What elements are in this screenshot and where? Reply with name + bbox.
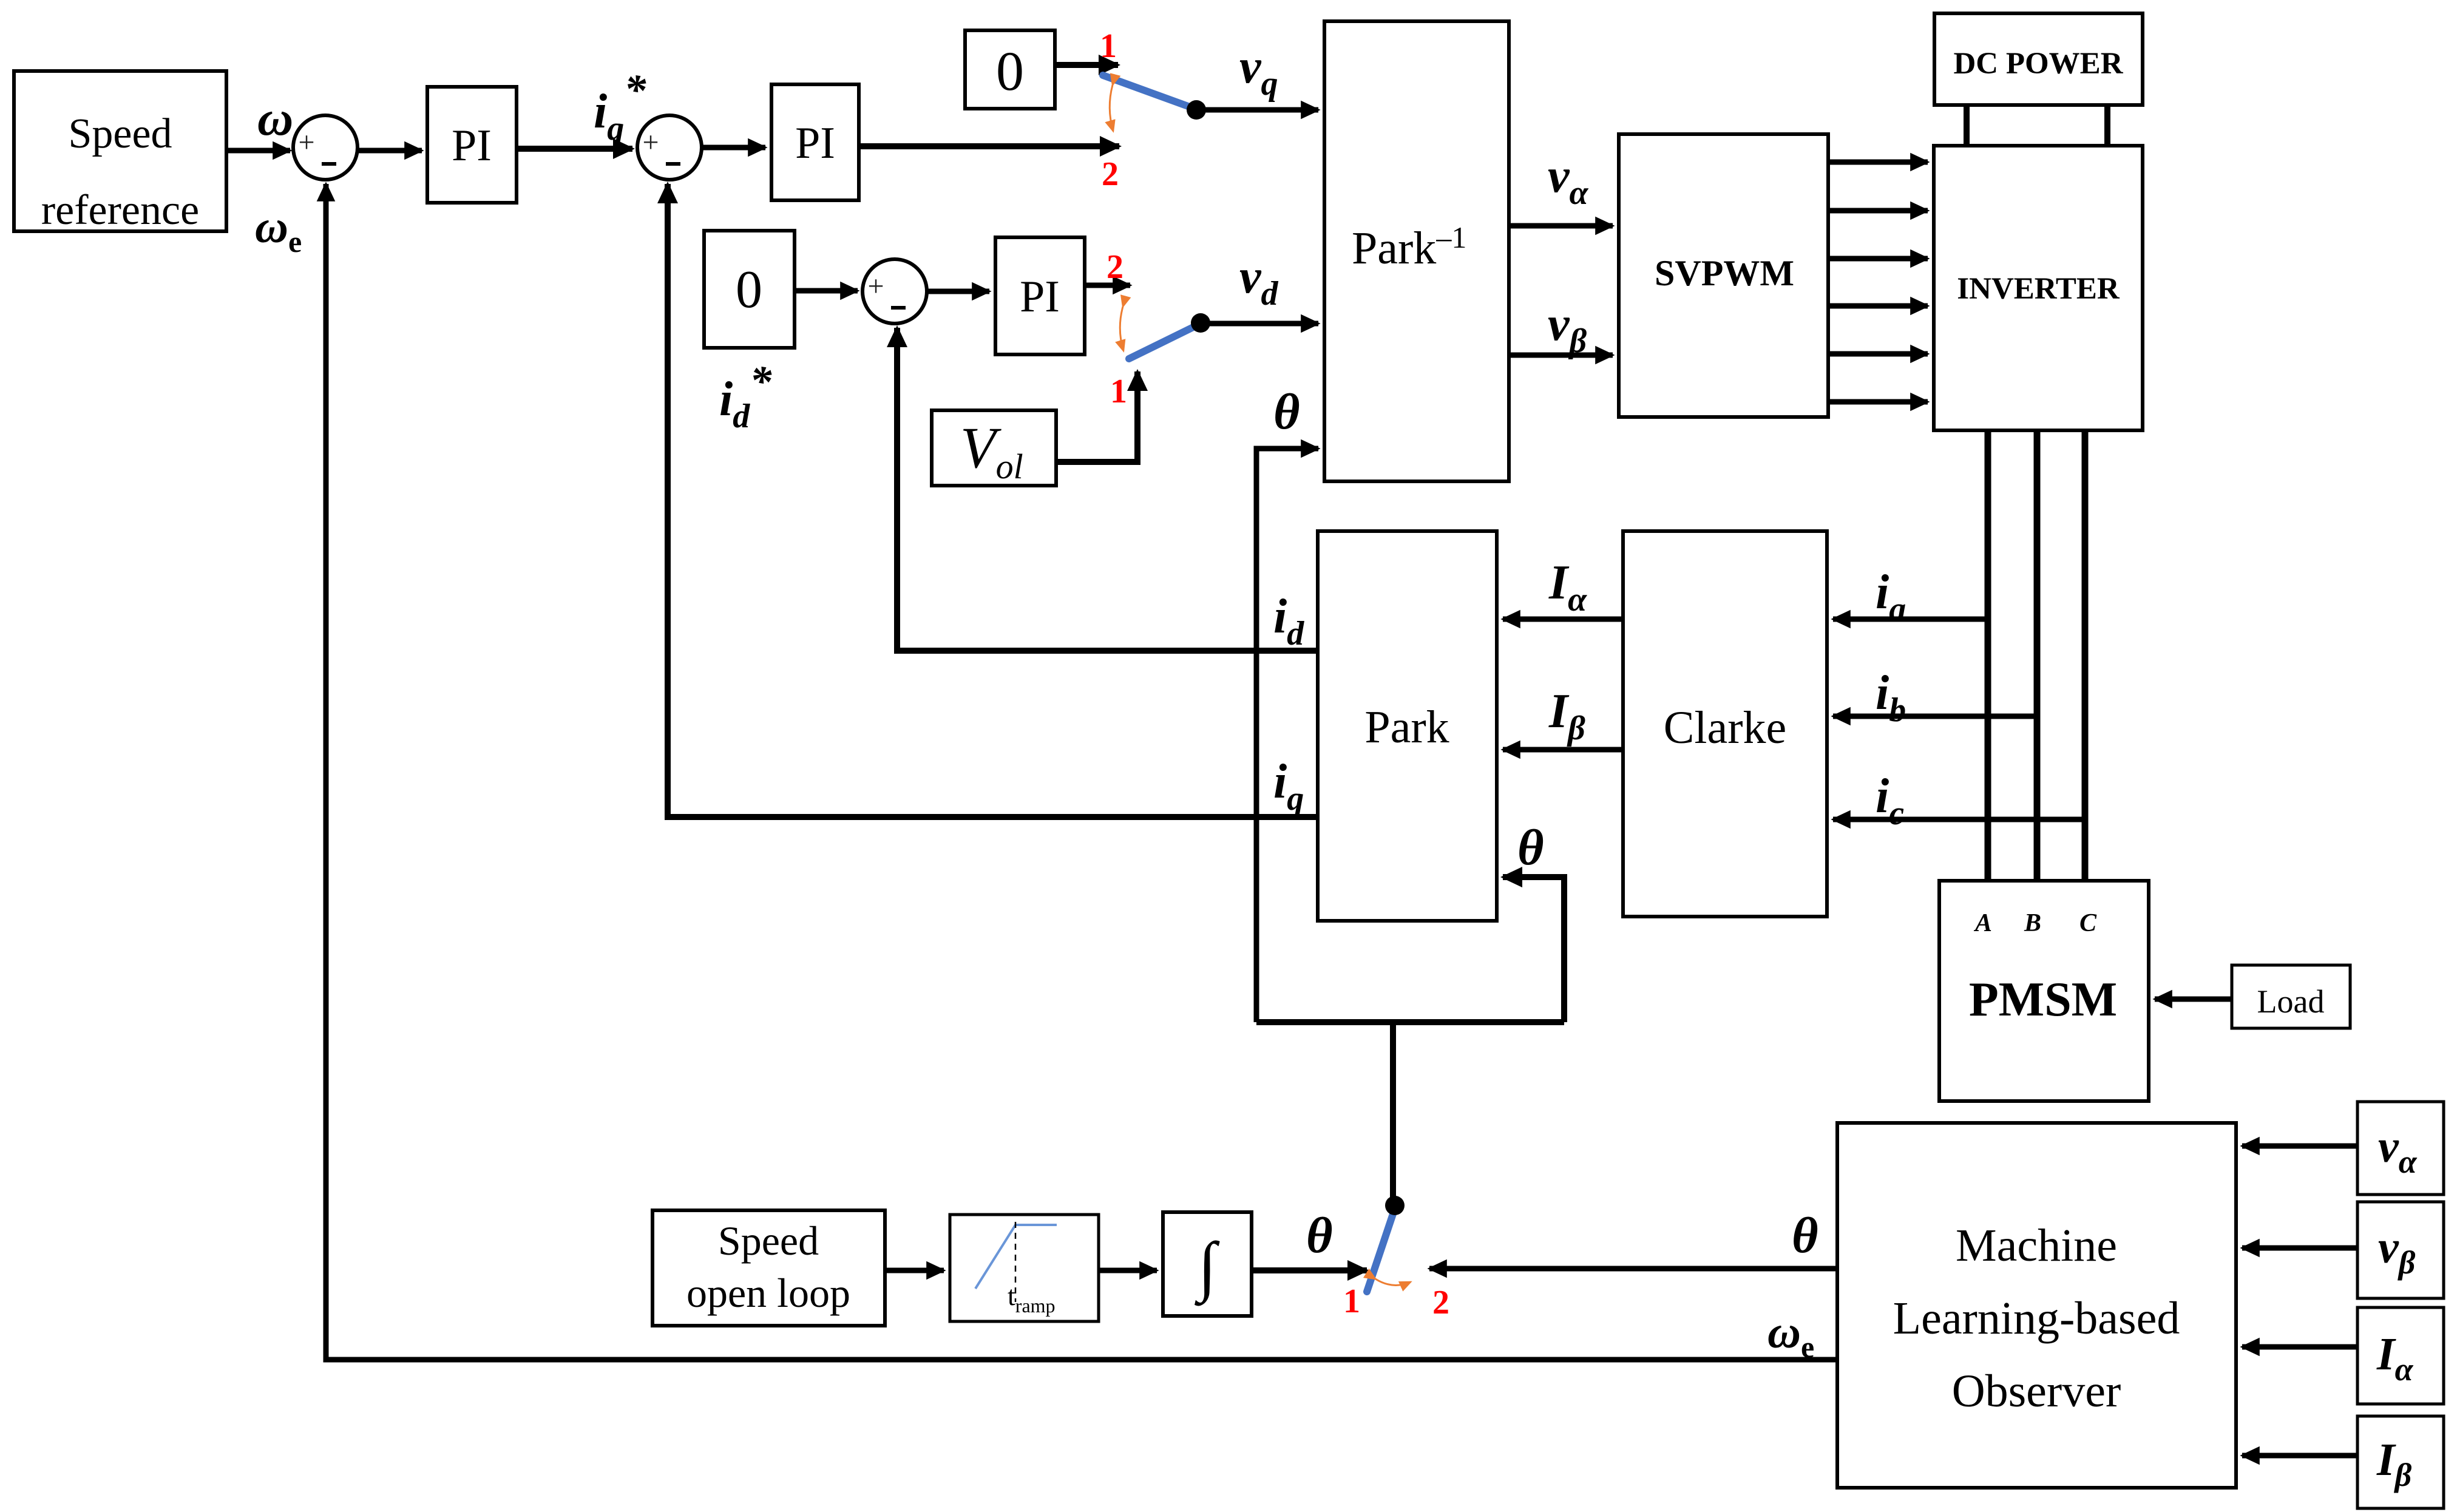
wire speed open loop to ramp	[885, 1268, 944, 1273]
block v-alpha input	[2357, 1102, 2444, 1195]
svg-text:A: A	[1973, 909, 1992, 937]
svg-text:reference: reference	[41, 187, 199, 234]
wire phase A INVERTER to PMSM	[1985, 430, 1991, 881]
block DC POWER	[1934, 13, 2143, 105]
block inverse Park transform	[1324, 21, 1509, 481]
wire omega-e feedback to speed summing junction	[326, 184, 1837, 1360]
svg-text:open loop: open loop	[686, 1270, 850, 1316]
wire ib tap to Clarke	[1833, 714, 2037, 719]
svg-text:SVPWM: SVPWM	[1655, 253, 1794, 293]
block Machine Learning-based Observer	[1837, 1123, 2236, 1488]
wire SVPWM to INVERTER pwm 1	[1828, 160, 1928, 165]
svg-text:PI: PI	[1020, 272, 1060, 322]
wire theta bus down to switch pole	[1390, 1022, 1396, 1199]
wire PI q to switch contact 2	[859, 143, 1119, 149]
svg-text:2: 2	[1432, 1284, 1449, 1321]
block PI speed controller	[427, 87, 517, 203]
svg-text:PMSM: PMSM	[1969, 973, 2117, 1026]
wire vd switch pole to inverse Park	[1199, 321, 1318, 327]
svg-text:2: 2	[1106, 248, 1123, 286]
wire SVPWM to INVERTER pwm 4	[1828, 303, 1928, 309]
switch theta lever	[1367, 1207, 1395, 1292]
wire Clarke I-beta to Park	[1503, 747, 1623, 753]
wire ramp to integrator	[1099, 1268, 1157, 1273]
wire vq switch pole to inverse Park	[1196, 107, 1318, 113]
wire PI d to vd switch contact 2	[1085, 283, 1130, 288]
wire Vol to vd switch contact 1	[1056, 371, 1137, 462]
summing junction speed	[293, 115, 358, 180]
wire inverse Park v-alpha to SVPWM	[1509, 223, 1613, 229]
wire integrator theta to switch contact 1	[1252, 1267, 1367, 1273]
svg-text:1: 1	[1110, 373, 1127, 410]
wire I-alpha box to observer	[2242, 1344, 2357, 1350]
wire v-beta box to observer	[2242, 1246, 2357, 1251]
block PMSM	[1939, 881, 2149, 1101]
wire Load to PMSM	[2155, 997, 2232, 1002]
block ramp limiter t_ramp	[950, 1215, 1099, 1321]
block PI d-axis current controller	[995, 237, 1085, 354]
block I-alpha input	[2357, 1307, 2444, 1404]
svg-text:ω: ω	[257, 90, 293, 146]
wire SVPWM to INVERTER pwm 6	[1828, 399, 1928, 405]
block Speed open loop	[652, 1210, 885, 1326]
wire zero block to vq switch contact 1	[1055, 62, 1118, 68]
svg-text:Learning-based: Learning-based	[1893, 1293, 2180, 1344]
block integrator	[1163, 1212, 1252, 1316]
wire SVPWM to INVERTER pwm 3	[1828, 256, 1928, 262]
block Park transform	[1318, 531, 1497, 921]
svg-text:Speed: Speed	[718, 1218, 819, 1264]
svg-text:θ: θ	[1517, 819, 1544, 876]
wire PI speed to q summing junction	[515, 146, 632, 152]
block INVERTER	[1934, 146, 2143, 430]
wire iq feedback from Park to q summing junction	[668, 184, 1318, 817]
summing junction d-axis	[862, 259, 927, 324]
wire I-beta box to observer	[2242, 1453, 2357, 1459]
svg-text:C: C	[2079, 909, 2097, 937]
wire speed reference to summing junction	[226, 148, 290, 154]
svg-text:θ: θ	[1273, 384, 1300, 440]
wire zero id block to d summing junction	[795, 288, 858, 294]
svg-text:∫: ∫	[1195, 1229, 1220, 1306]
wire SVPWM to INVERTER pwm 5	[1828, 351, 1928, 357]
block Clarke transform	[1623, 531, 1827, 917]
switch vd lever	[1129, 324, 1199, 359]
wire v-alpha box to observer	[2242, 1144, 2357, 1149]
wire observer theta to switch contact 2	[1429, 1266, 1837, 1272]
block PI q-axis current controller	[771, 84, 859, 200]
switch vq orange arc	[1110, 85, 1113, 131]
wire ia tap to Clarke	[1833, 617, 1988, 622]
wire theta bus into Park	[1503, 877, 1564, 1022]
wire theta bus into inverse Park	[1256, 449, 1318, 1022]
block zero reference vq	[965, 30, 1055, 109]
switch theta orange arc	[1375, 1279, 1411, 1285]
block zero reference id	[704, 231, 795, 348]
switch vq lever	[1103, 75, 1196, 109]
wire inverse Park v-beta to SVPWM	[1509, 353, 1613, 358]
svg-text:1: 1	[1343, 1283, 1360, 1320]
wire theta bottom bus	[1256, 1019, 1564, 1025]
svg-text:PI: PI	[452, 121, 492, 171]
switch vd pole dot	[1191, 313, 1210, 333]
svg-text:Speed: Speed	[68, 110, 172, 157]
svg-text:1: 1	[1100, 27, 1117, 65]
block Vol open-loop voltage	[932, 410, 1056, 486]
svg-text:0: 0	[736, 260, 762, 319]
svg-text:Load: Load	[2257, 983, 2325, 1020]
block SVPWM	[1619, 134, 1828, 417]
wire Clarke I-alpha to Park	[1503, 617, 1623, 622]
summing junction q-axis	[637, 115, 702, 180]
wire DC POWER to INVERTER left	[1964, 105, 1970, 146]
wire q summing junction to PI q	[700, 145, 765, 151]
wire id feedback from Park to d summing junction	[897, 328, 1318, 651]
switch vq pole dot	[1187, 100, 1206, 120]
svg-text:θ: θ	[1306, 1207, 1333, 1264]
svg-text:INVERTER: INVERTER	[1957, 272, 2120, 306]
svg-text:0: 0	[996, 40, 1024, 102]
wire DC POWER to INVERTER right	[2104, 105, 2110, 146]
wire ic tap to Clarke	[1833, 817, 2085, 822]
svg-text:PI: PI	[795, 118, 835, 168]
wire phase C INVERTER to PMSM	[2082, 430, 2089, 881]
svg-text:Machine: Machine	[1956, 1220, 2117, 1271]
svg-text:DC POWER: DC POWER	[1953, 47, 2123, 81]
svg-text:+: +	[298, 126, 314, 158]
wire d summing junction to PI d	[926, 289, 989, 294]
svg-text:Clarke: Clarke	[1664, 702, 1787, 753]
switch theta pole dot	[1385, 1196, 1405, 1215]
svg-text:Observer: Observer	[1952, 1366, 2121, 1417]
wire summing junction to PI speed	[357, 148, 422, 154]
svg-text:B: B	[2024, 909, 2041, 937]
svg-text:+: +	[642, 126, 659, 158]
svg-text:2: 2	[1102, 155, 1119, 193]
block Speed reference	[14, 71, 226, 234]
svg-text:+: +	[867, 270, 884, 302]
block Load	[2232, 965, 2350, 1028]
svg-text:θ: θ	[1792, 1207, 1818, 1264]
block I-beta input	[2357, 1416, 2444, 1508]
svg-text:Park: Park	[1364, 702, 1449, 753]
switch vd orange arc	[1120, 307, 1123, 351]
wire phase B INVERTER to PMSM	[2034, 430, 2041, 881]
block v-beta input	[2357, 1202, 2444, 1298]
wire SVPWM to INVERTER pwm 2	[1828, 208, 1928, 214]
